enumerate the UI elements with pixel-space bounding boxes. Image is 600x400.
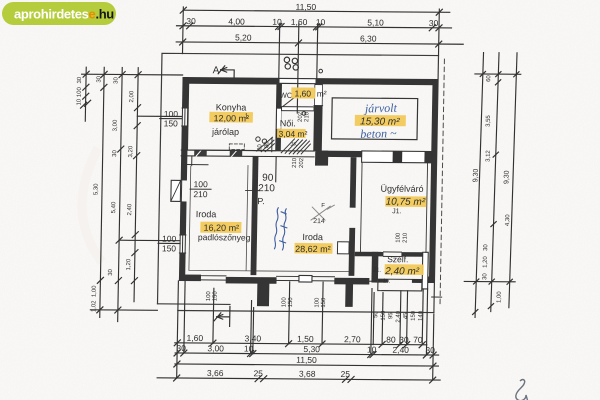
plot / eaves outline bbox=[157, 53, 438, 312]
svg-text:150: 150 bbox=[411, 310, 417, 321]
door label 100/210 Iroda16 bbox=[193, 179, 208, 199]
svg-text:5,30: 5,30 bbox=[303, 344, 320, 354]
svg-text:3,00: 3,00 bbox=[113, 119, 119, 131]
stairs hatch in Eloter bbox=[281, 139, 310, 154]
svg-text:25: 25 bbox=[340, 369, 350, 379]
top exterior wall bbox=[182, 77, 438, 85]
svg-text:12,00 m²: 12,00 m² bbox=[213, 113, 249, 123]
bottom dim line 11,50 bbox=[175, 364, 439, 366]
Szelf bottom wall bbox=[378, 279, 422, 283]
svg-text:2,00: 2,00 bbox=[129, 90, 135, 102]
svg-text:30: 30 bbox=[96, 75, 102, 82]
svg-text:30: 30 bbox=[483, 244, 489, 251]
svg-text:1,50: 1,50 bbox=[297, 334, 314, 344]
svg-text:1,00: 1,00 bbox=[497, 291, 503, 303]
svg-text:150: 150 bbox=[162, 243, 177, 253]
WC right wall / garage left wall bbox=[313, 84, 323, 151]
divider left face line bbox=[246, 166, 248, 271]
bottom dim chain B2 bbox=[175, 353, 439, 355]
divider wall Iroda16/Iroda28 bbox=[251, 156, 259, 275]
dim tick marks top bbox=[180, 7, 186, 13]
Konyha room inner line bbox=[187, 83, 277, 151]
svg-text:5,10: 5,10 bbox=[367, 17, 384, 27]
svg-text:30: 30 bbox=[399, 335, 409, 345]
door label 90/210 corridor bbox=[258, 173, 276, 195]
wall Ugyfelvaro top pier bbox=[393, 151, 403, 162]
svg-text:2,40: 2,40 bbox=[396, 310, 402, 322]
svg-text:100: 100 bbox=[206, 291, 212, 302]
rotated door labels WC bbox=[298, 111, 311, 122]
MAIN DRAWING GROUP (sheared to mimic scan skew) bbox=[72, 0, 464, 383]
bottom wall right piece beside Szelf bbox=[425, 276, 435, 283]
svg-text:J1.: J1. bbox=[373, 268, 381, 274]
middle wall under Konyha (band with piers and openings) bbox=[181, 144, 314, 158]
svg-text:Ügyfélváró: Ügyfélváró bbox=[380, 184, 423, 194]
radiator rect left of divider bbox=[337, 242, 349, 254]
room Iroda 16,20 labels bbox=[195, 209, 251, 242]
T pier 2 (bar+stem) bbox=[334, 278, 370, 307]
window label 100/150 lower left wall bbox=[162, 234, 177, 254]
svg-text:beton ~: beton ~ bbox=[360, 126, 397, 141]
svg-text:WC: WC bbox=[280, 91, 293, 100]
right dim top connector bbox=[474, 73, 521, 75]
svg-text:90: 90 bbox=[262, 173, 274, 184]
svg-text:150: 150 bbox=[381, 310, 387, 321]
bottom-left wall corner piece bbox=[179, 275, 201, 282]
svg-text:P.: P. bbox=[257, 196, 265, 206]
left dim vertical lines bbox=[84, 67, 87, 121]
dim tick marks left bbox=[101, 71, 107, 77]
section marker A top bbox=[213, 65, 235, 77]
svg-text:2,40: 2,40 bbox=[392, 345, 409, 355]
Ugyfelvaro top wall (white double) bbox=[362, 151, 432, 163]
terrace lower edge line bbox=[178, 310, 434, 312]
svg-text:30: 30 bbox=[113, 76, 119, 83]
room Konyha labels bbox=[209, 102, 253, 137]
rotated door labels corridor bbox=[257, 141, 270, 151]
divider wall Iroda28/Ugyfelvaro lower bbox=[349, 228, 356, 276]
svg-text:3,20: 3,20 bbox=[128, 145, 134, 157]
svg-text:10: 10 bbox=[272, 17, 282, 27]
small step line right of Szelf bbox=[432, 296, 442, 298]
svg-text:150: 150 bbox=[288, 297, 294, 308]
svg-text:3,04 m²: 3,04 m² bbox=[278, 129, 307, 139]
svg-text:A: A bbox=[213, 65, 220, 76]
room Iroda 28,62 labels bbox=[294, 232, 332, 254]
Iroda16 inner corner lines bbox=[187, 156, 208, 166]
Szelf entrance stoop bbox=[378, 283, 422, 291]
left dim rotated labels bbox=[73, 75, 136, 312]
WC left wall bbox=[276, 84, 282, 151]
right exterior wall bbox=[429, 79, 438, 283]
handwritten S scribble bottom right bbox=[516, 380, 528, 400]
svg-text:100: 100 bbox=[281, 297, 287, 308]
svg-text:9,30: 9,30 bbox=[472, 169, 479, 183]
svg-text:padlószőnyeg: padlószőnyeg bbox=[198, 232, 251, 242]
watermark pill aprohirdetes.hu bbox=[2, 2, 116, 25]
svg-text:3,00: 3,00 bbox=[207, 343, 224, 353]
svg-text:95: 95 bbox=[388, 312, 394, 319]
handwritten blue vertical scribble in Iroda28 bbox=[274, 208, 287, 250]
pier at garage SW corner bbox=[315, 151, 328, 166]
bottom extension verticals bbox=[177, 281, 179, 378]
svg-text:150: 150 bbox=[213, 291, 219, 302]
porch window sill short lines bbox=[201, 275, 226, 277]
svg-text:3,40: 3,40 bbox=[245, 333, 262, 343]
terrace upper edge line bbox=[157, 303, 230, 306]
bottom porch sill line bbox=[201, 280, 372, 281]
dim tick marks bottom bbox=[174, 340, 180, 346]
svg-text:Női.: Női. bbox=[280, 118, 296, 128]
svg-text:10,75 m²: 10,75 m² bbox=[386, 197, 426, 208]
divider wall Iroda28/Ugyfelvaro upper bbox=[350, 157, 357, 207]
svg-text:28,62 m²: 28,62 m² bbox=[295, 244, 331, 254]
svg-text:100: 100 bbox=[396, 232, 402, 243]
Ugyfelvaro inner inset lines bbox=[360, 162, 427, 252]
rotated door labels Eloter bbox=[292, 157, 305, 168]
svg-text:3,12: 3,12 bbox=[486, 150, 492, 162]
svg-text:1,60: 1,60 bbox=[291, 17, 308, 27]
svg-text:30: 30 bbox=[108, 268, 114, 275]
small plumbing circles above WC bbox=[284, 57, 289, 62]
svg-text:6,30: 6,30 bbox=[360, 33, 377, 43]
svg-text:210: 210 bbox=[258, 183, 275, 194]
rotated porch window labels bbox=[206, 291, 327, 308]
bottom dim texts bbox=[176, 333, 436, 380]
svg-text:214: 214 bbox=[313, 218, 325, 225]
svg-text:10: 10 bbox=[77, 98, 83, 105]
svg-text:1,60: 1,60 bbox=[294, 88, 311, 98]
hatched pier 2 bbox=[230, 150, 243, 156]
RIGHT DIMENSION BLOCK (stronger skew) bbox=[463, 52, 524, 318]
Iroda28 inner inset bottom line bbox=[256, 270, 348, 273]
svg-text:Iroda: Iroda bbox=[196, 209, 217, 219]
door gap Konyha to Eloter bbox=[277, 108, 282, 129]
svg-text:2,40 m²: 2,40 m² bbox=[384, 266, 420, 277]
bottom dim line B4 bbox=[157, 378, 440, 380]
svg-text:5,40: 5,40 bbox=[111, 201, 117, 213]
Szelf left wall bbox=[371, 252, 378, 283]
rotated Szelf bottom labels bbox=[373, 310, 424, 323]
svg-text:30: 30 bbox=[482, 273, 488, 280]
dashed counter rect in Konyha bbox=[229, 144, 244, 150]
svg-text:60: 60 bbox=[486, 75, 492, 82]
door gap 100/210 in left wall bbox=[180, 180, 182, 201]
svg-text:11,50: 11,50 bbox=[296, 355, 317, 365]
right dim vertical 3 bbox=[509, 52, 517, 308]
rotated door labels Ugyfelvaro/Szelf bbox=[396, 232, 409, 243]
svg-text:150: 150 bbox=[321, 297, 327, 308]
svg-text:50: 50 bbox=[373, 311, 379, 318]
svg-text:140: 140 bbox=[418, 310, 424, 321]
svg-text:3,66: 3,66 bbox=[207, 368, 224, 378]
svg-text:70: 70 bbox=[413, 335, 423, 345]
door swing hatch right of Konyha bbox=[257, 137, 275, 152]
top dim line 5,20/6,30 bbox=[176, 42, 463, 44]
svg-text:2,70: 2,70 bbox=[344, 334, 361, 344]
svg-text:4,00: 4,00 bbox=[228, 16, 245, 26]
right dim bottom connector bbox=[464, 280, 516, 282]
Szelf top wall bbox=[355, 252, 429, 257]
svg-text:30: 30 bbox=[425, 345, 435, 355]
room Ugyfelvaro labels bbox=[380, 184, 427, 216]
svg-text:aprohirdetese.hu: aprohirdetese.hu bbox=[14, 7, 114, 22]
svg-text:30: 30 bbox=[112, 149, 118, 156]
svg-text:F: F bbox=[321, 203, 325, 209]
top dim line 11,50 bbox=[183, 10, 450, 12]
room Szelf labels bbox=[373, 254, 424, 285]
garage bottom wall band bbox=[322, 151, 362, 158]
wall piece at NE of Ugyfelvaro bbox=[424, 151, 431, 162]
dashed roof line right bbox=[440, 59, 444, 304]
bottom dim chain B1 bbox=[175, 343, 427, 345]
room Eloter labels bbox=[277, 118, 308, 139]
svg-text:1v.: 1v. bbox=[383, 279, 391, 285]
room WC labels bbox=[280, 87, 327, 100]
section marker A bottom bbox=[214, 306, 230, 326]
svg-text:80: 80 bbox=[264, 141, 270, 148]
svg-text:25: 25 bbox=[253, 368, 263, 378]
top extension verticals bbox=[182, 7, 185, 54]
svg-text:1,60: 1,60 bbox=[187, 333, 204, 343]
svg-text:30: 30 bbox=[429, 18, 439, 28]
door gap in divider bbox=[350, 207, 355, 228]
svg-text:2,40: 2,40 bbox=[127, 203, 133, 215]
svg-text:járvolt: járvolt bbox=[363, 101, 398, 116]
svg-text:5,20: 5,20 bbox=[235, 32, 252, 42]
pencil cross and 214 note in Iroda28 bbox=[311, 203, 334, 225]
right dim rotated labels bbox=[469, 74, 516, 303]
svg-text:100: 100 bbox=[314, 297, 320, 308]
left exterior wall bottom segment bbox=[179, 253, 186, 281]
svg-text:10: 10 bbox=[316, 17, 326, 27]
svg-text:210: 210 bbox=[304, 111, 310, 122]
right dim vertical 2 bbox=[491, 52, 499, 312]
svg-text:4,30: 4,30 bbox=[505, 214, 511, 226]
window 100/150 Konyha in left wall bbox=[182, 108, 189, 126]
svg-text:J1.: J1. bbox=[392, 208, 402, 215]
window 100/150 Iroda in left wall bbox=[179, 235, 186, 253]
left dim connectors bbox=[82, 73, 183, 76]
svg-text:1,02: 1,02 bbox=[91, 300, 97, 312]
svg-text:45: 45 bbox=[403, 312, 409, 319]
svg-text:1,00: 1,00 bbox=[92, 285, 98, 297]
svg-text:1,20: 1,20 bbox=[126, 258, 132, 270]
svg-text:11,50: 11,50 bbox=[295, 2, 316, 12]
Iroda16 inner inset lines bbox=[189, 166, 253, 271]
svg-text:10: 10 bbox=[244, 344, 254, 354]
svg-text:100: 100 bbox=[193, 179, 208, 189]
side door landing (left protrusion) bbox=[171, 180, 181, 201]
svg-text:Konyha: Konyha bbox=[216, 102, 247, 112]
svg-text:210: 210 bbox=[193, 189, 208, 199]
svg-text:30: 30 bbox=[186, 16, 196, 26]
svg-text:30: 30 bbox=[176, 343, 186, 353]
left exterior wall mid segment bbox=[181, 126, 188, 180]
svg-text:Szélf.: Szélf. bbox=[387, 254, 408, 264]
svg-text:20: 20 bbox=[257, 144, 263, 151]
glazed section of top wall above WC bbox=[279, 79, 315, 83]
svg-text:9,30: 9,30 bbox=[503, 170, 510, 184]
svg-text:210: 210 bbox=[292, 157, 298, 168]
window label 100/150 upper left wall bbox=[164, 109, 179, 129]
svg-text:150: 150 bbox=[164, 118, 179, 128]
svg-text:80: 80 bbox=[386, 334, 396, 344]
garage inner rectangle bbox=[331, 98, 417, 140]
hatched pier 1 bbox=[194, 150, 207, 156]
svg-text:100: 100 bbox=[162, 234, 177, 244]
svg-text:202: 202 bbox=[298, 111, 304, 122]
svg-text:m²: m² bbox=[317, 89, 327, 99]
svg-text:1,20: 1,20 bbox=[483, 256, 489, 268]
svg-text:30: 30 bbox=[77, 76, 83, 83]
svg-text:100: 100 bbox=[77, 86, 83, 97]
svg-text:Iroda: Iroda bbox=[302, 232, 323, 242]
top dim chain line bbox=[176, 26, 451, 28]
svg-text:5,30: 5,30 bbox=[93, 183, 99, 195]
top dim texts bbox=[186, 1, 439, 44]
svg-text:202: 202 bbox=[299, 157, 305, 168]
room garage labels (15,30) bbox=[354, 100, 406, 141]
left exterior wall lower segment bbox=[180, 201, 187, 235]
T pier 1 (bar+stem) bbox=[225, 277, 276, 306]
svg-text:3,55: 3,55 bbox=[486, 115, 492, 127]
svg-text:10: 10 bbox=[367, 345, 377, 355]
svg-text:210: 210 bbox=[403, 232, 409, 243]
svg-text:3,68: 3,68 bbox=[299, 369, 316, 379]
right dim vertical 1 bbox=[475, 52, 484, 318]
faint bleedthrough arc bbox=[82, 148, 102, 262]
WC bottom partition (thin) bbox=[281, 107, 314, 111]
Szelf right wall bbox=[422, 252, 428, 289]
small rect in porch opening bbox=[299, 275, 312, 282]
svg-text:járólap: járólap bbox=[211, 127, 239, 137]
left exterior wall upper segment bbox=[182, 77, 189, 108]
